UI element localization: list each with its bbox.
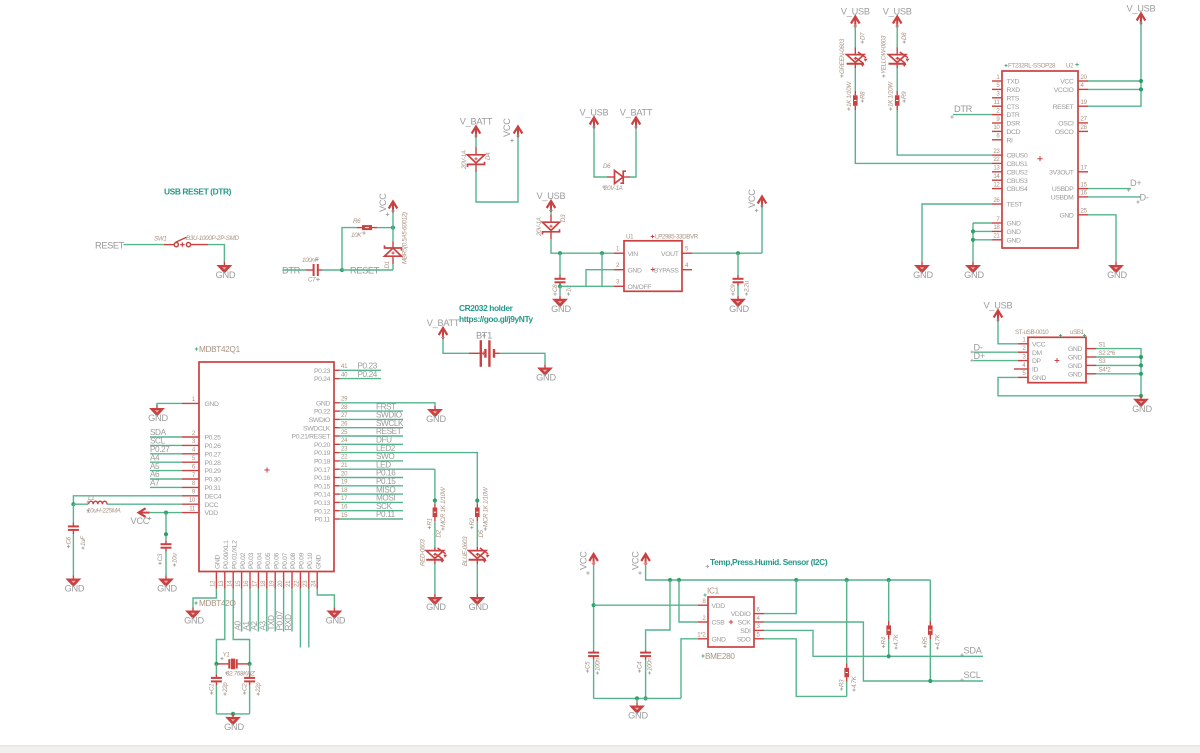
svg-text:11: 11 xyxy=(994,99,1001,106)
svg-text:P0.23: P0.23 xyxy=(314,368,331,375)
svg-text:P0.16: P0.16 xyxy=(314,475,331,482)
pin 1 TXD xyxy=(992,80,1002,82)
svg-text:P0.00/XL1: P0.00/XL1 xyxy=(223,540,230,569)
wire C8 to ground xyxy=(559,286,561,296)
svg-text:GND: GND xyxy=(315,555,322,569)
svg-text:GND: GND xyxy=(536,373,556,383)
svg-text:20V-1A: 20V-1A xyxy=(536,217,543,237)
svg-text:Temp,Press.Humid. Sensor (I2C): Temp,Press.Humid. Sensor (I2C) xyxy=(710,557,828,567)
svg-text:CSB: CSB xyxy=(712,620,726,627)
wire gnd rail xyxy=(594,697,681,699)
wire net P0.24 xyxy=(340,378,382,380)
svg-text:10K: 10K xyxy=(351,232,362,239)
svg-text:13: 13 xyxy=(218,580,225,587)
svg-text:RESET: RESET xyxy=(95,241,125,251)
svg-text:P0.18: P0.18 xyxy=(314,459,331,466)
svg-text:1K 1/10W: 1K 1/10W xyxy=(888,81,895,107)
wire GND pin to ground symbol xyxy=(340,403,436,406)
wire CBUS1 from green LED xyxy=(855,110,992,163)
svg-text:R1: R1 xyxy=(426,518,433,525)
wire to VCC arrow xyxy=(761,208,763,254)
svg-text:GND: GND xyxy=(1068,363,1082,370)
resistor R3 4.7K xyxy=(844,580,849,696)
junction C8 bottom xyxy=(558,284,562,288)
capacitor C7 100nF xyxy=(306,264,322,276)
pin S2 2*6 GND xyxy=(1086,356,1096,358)
wire TEST to ground xyxy=(922,204,992,262)
pin 15 P0.02 xyxy=(241,572,243,589)
junction VCC node xyxy=(391,226,395,230)
supply V_BATT xyxy=(620,108,653,130)
svg-text:USBDP: USBDP xyxy=(1052,186,1074,193)
svg-text:MDBT42Q: MDBT42Q xyxy=(199,599,236,608)
wire P0.09 xyxy=(299,589,301,648)
wire GND5 route xyxy=(998,377,1141,395)
wire net A0 xyxy=(241,589,243,632)
pin 2 DM xyxy=(1018,351,1028,353)
pin 4 BYPASS xyxy=(682,269,692,271)
ground xyxy=(913,262,933,280)
svg-text:P0.17: P0.17 xyxy=(314,467,331,474)
ground xyxy=(184,608,204,626)
svg-text:S1: S1 xyxy=(1099,341,1107,348)
svg-text:22: 22 xyxy=(993,156,1000,163)
svg-text:14: 14 xyxy=(226,580,233,587)
resistor R8 xyxy=(853,91,858,110)
wire C1 to gnd rail xyxy=(215,685,217,714)
wire V_USB to LED D8 xyxy=(896,28,898,48)
pin 3 ON/OFF xyxy=(614,285,624,287)
svg-text:VDDIO: VDDIO xyxy=(731,611,751,618)
svg-text:BME280: BME280 xyxy=(705,652,735,661)
wire C4 to rail xyxy=(645,660,647,699)
svg-text:OSCI: OSCI xyxy=(1058,121,1074,128)
svg-text:GND: GND xyxy=(1107,270,1127,280)
svg-text:TXD: TXD xyxy=(1007,79,1020,86)
pin 1 VCC xyxy=(1018,343,1028,345)
svg-text:P0.11: P0.11 xyxy=(314,517,330,524)
wire C2 to gnd rail xyxy=(249,685,251,714)
svg-text:21: 21 xyxy=(993,233,1000,240)
svg-text:ID: ID xyxy=(1032,367,1039,374)
svg-text:V_USB: V_USB xyxy=(841,7,870,17)
svg-text:U2: U2 xyxy=(1066,63,1074,70)
wire net SCK xyxy=(340,510,404,512)
svg-text:VCC: VCC xyxy=(378,193,388,212)
wire S4 xyxy=(1096,373,1141,375)
ic U2 FT232RL-SSOP28 box xyxy=(1002,71,1078,248)
wire net MISO xyxy=(340,493,404,495)
wire V_BATT to BT1 xyxy=(443,339,469,353)
pin 16 P0.12 xyxy=(334,510,340,512)
svg-text:GND: GND xyxy=(712,636,726,643)
wire net P0.15 xyxy=(340,485,404,487)
svg-text:21: 21 xyxy=(341,462,348,469)
pin 9 DSR xyxy=(992,122,1002,124)
wire LED to ground xyxy=(434,564,436,594)
svg-text:V_USB: V_USB xyxy=(580,108,609,118)
svg-text:25: 25 xyxy=(1081,208,1088,215)
svg-text:IC1: IC1 xyxy=(707,587,720,596)
svg-text:GND: GND xyxy=(913,270,933,280)
svg-text:P0.28: P0.28 xyxy=(205,460,222,467)
junction C4 rail xyxy=(644,696,648,700)
wire net P0.27 xyxy=(150,453,182,455)
diode D1 schottky xyxy=(385,242,402,265)
wire C6 to ground xyxy=(72,534,74,576)
wire net LED2 xyxy=(340,452,479,454)
wire crystal gnd rail xyxy=(216,713,249,715)
pin 24 GND xyxy=(316,572,318,589)
supply VCC xyxy=(514,127,523,139)
scrollbar track xyxy=(0,746,1200,753)
wire XL1 to crystal xyxy=(216,589,224,664)
svg-text:P0.22: P0.22 xyxy=(314,409,331,416)
ground xyxy=(468,594,488,612)
wire V_USB down to RESET row xyxy=(1088,25,1141,107)
wire net P0.11 xyxy=(340,518,404,520)
junction GND18 xyxy=(971,229,975,233)
wire P0.010 xyxy=(308,589,310,648)
svg-text:C7: C7 xyxy=(308,277,316,284)
svg-text:GND: GND xyxy=(215,555,222,569)
svg-text:GND: GND xyxy=(426,414,446,424)
pin 21 GND xyxy=(992,239,1002,241)
pin 6 RI xyxy=(992,139,1002,141)
svg-text:BYPASS: BYPASS xyxy=(654,267,679,274)
svg-text:GND: GND xyxy=(316,400,330,407)
svg-text:GND: GND xyxy=(224,722,244,732)
wire CBUS0 from yellow LED xyxy=(897,110,992,155)
junction gnd rail xyxy=(231,712,235,716)
svg-text:P0.07: P0.07 xyxy=(282,552,289,569)
svg-text:20V-1A: 20V-1A xyxy=(603,185,623,192)
led D2 RED-0603 xyxy=(426,547,447,564)
junction S3 xyxy=(1139,363,1143,367)
ground xyxy=(148,405,168,423)
svg-text:VCC: VCC xyxy=(1032,341,1046,348)
supply V_USB top right xyxy=(1127,4,1156,26)
svg-text:1*2: 1*2 xyxy=(697,632,706,639)
wire net A1 xyxy=(249,589,251,632)
svg-text:C9: C9 xyxy=(730,284,737,292)
svg-text:SDO: SDO xyxy=(737,636,751,643)
pin 4 ID xyxy=(1014,368,1028,370)
svg-text:VCC: VCC xyxy=(631,551,641,570)
svg-text:P0.14: P0.14 xyxy=(314,492,331,499)
svg-text:12: 12 xyxy=(993,181,1000,188)
svg-text:DP: DP xyxy=(1032,358,1042,365)
junction S4 xyxy=(1139,372,1143,376)
junction CSB branch xyxy=(677,578,681,582)
wire D1 anode to RESET wire xyxy=(392,264,394,270)
svg-text:16: 16 xyxy=(1081,190,1088,197)
pin 1 VIN xyxy=(614,252,624,254)
pin 7 P0.30 xyxy=(182,478,199,480)
wire to C9 xyxy=(737,253,739,275)
wire GND25 to ground xyxy=(1088,215,1116,262)
svg-text:P0.04: P0.04 xyxy=(257,552,264,569)
pin 17 3V3OUT xyxy=(1078,171,1088,173)
svg-text:USB RESET (DTR): USB RESET (DTR) xyxy=(164,187,232,197)
svg-text:P0.10: P0.10 xyxy=(307,552,314,569)
svg-text:P0.11: P0.11 xyxy=(376,510,396,519)
pin 2 P0.25 xyxy=(182,436,199,438)
svg-text:20V-1A: 20V-1A xyxy=(461,150,468,170)
svg-text:19: 19 xyxy=(341,479,348,486)
svg-text:21: 21 xyxy=(285,580,292,587)
pin 28 P0.22 xyxy=(334,410,340,412)
wire R6 to VCC node xyxy=(377,227,393,229)
wire DEC4 to inductor node xyxy=(73,496,182,504)
wire net A3 xyxy=(266,589,268,632)
svg-text:GND: GND xyxy=(1132,404,1152,414)
wire to VCC arrow xyxy=(392,213,394,228)
wire pin24 GND xyxy=(317,589,334,608)
pin 28 OSCO xyxy=(1078,130,1088,132)
svg-text:32.768KHZ: 32.768KHZ xyxy=(226,671,255,678)
svg-text:ON/OFF: ON/OFF xyxy=(628,284,652,291)
junction VDD node xyxy=(592,603,596,607)
svg-text:28: 28 xyxy=(341,404,348,411)
svg-text:D3: D3 xyxy=(560,214,567,222)
svg-text:VCC: VCC xyxy=(747,189,757,208)
svg-text:D5: D5 xyxy=(478,529,485,537)
led D8 YELLOW-0603 xyxy=(889,48,910,69)
wire net A4 xyxy=(150,461,182,463)
capacitor C3 10u xyxy=(161,541,172,552)
svg-text:15: 15 xyxy=(1081,181,1088,188)
capacitor C8 1uF xyxy=(555,275,566,286)
svg-text:RED-0603: RED-0603 xyxy=(419,539,426,566)
svg-text:DEC4: DEC4 xyxy=(205,493,222,500)
svg-text:P0.02: P0.02 xyxy=(240,552,247,569)
svg-text:27: 27 xyxy=(1081,116,1088,123)
led D5 BLUE-0603 xyxy=(469,547,490,564)
svg-text:18: 18 xyxy=(260,580,267,587)
wire RESET node to D1 xyxy=(342,269,393,271)
svg-text:17: 17 xyxy=(252,580,259,587)
wire D6 to V_BATT xyxy=(630,129,636,178)
pin 9 DEC4 xyxy=(182,495,199,497)
pin 2 DTR xyxy=(992,114,1002,116)
svg-text:SDA: SDA xyxy=(964,645,983,655)
pin 10 DCD xyxy=(992,130,1002,132)
capacitor C5 100n xyxy=(588,650,599,659)
supply V_USB xyxy=(841,7,870,29)
svg-text:23: 23 xyxy=(341,445,348,452)
junction S2 xyxy=(1139,355,1143,359)
svg-text:VDD: VDD xyxy=(712,603,726,610)
svg-text:VIN: VIN xyxy=(628,251,639,258)
svg-text:GND: GND xyxy=(628,267,642,274)
wire resistor to LED xyxy=(476,521,478,547)
wire VDDIO to bus xyxy=(764,580,796,614)
svg-text:24: 24 xyxy=(341,437,348,444)
pin 5 P0.28 xyxy=(182,461,199,463)
junction VCC xyxy=(1139,79,1143,83)
svg-text:C1: C1 xyxy=(209,684,216,691)
svg-text:ST-uSB-0010: ST-uSB-0010 xyxy=(1015,329,1049,336)
svg-text:P0.27: P0.27 xyxy=(205,451,222,458)
pin 23 P0.19 xyxy=(334,452,340,454)
pin 19 P0.15 xyxy=(334,485,340,487)
svg-text:MBR5(0.5A5-60012): MBR5(0.5A5-60012) xyxy=(402,212,409,264)
junction ONOFF column xyxy=(600,251,604,255)
svg-text:22p: 22p xyxy=(255,682,262,693)
wire net DFU xyxy=(340,443,404,445)
wire shield S1-S4 bus xyxy=(1096,349,1141,396)
wire SDO route to R3 xyxy=(764,639,847,697)
capacitor C6 1uF xyxy=(68,523,79,535)
svg-text:C2: C2 xyxy=(242,683,249,691)
pin 1 GND xyxy=(182,402,199,404)
junction R3 branch xyxy=(845,578,849,582)
ground xyxy=(536,365,556,383)
wire V_USB to LED D7 xyxy=(854,28,856,48)
svg-text:GND: GND xyxy=(1007,221,1021,228)
svg-text:R5: R5 xyxy=(922,636,929,644)
wire V_USB to D3 xyxy=(550,212,552,215)
wire to C8 xyxy=(559,253,561,275)
svg-text:100n: 100n xyxy=(595,658,602,671)
pin 3 SDI xyxy=(754,629,764,631)
pin 25 GND xyxy=(1078,214,1088,216)
svg-text:P0.24: P0.24 xyxy=(358,370,378,379)
wire net P0.16 xyxy=(340,477,404,479)
svg-text:GND: GND xyxy=(426,602,446,612)
pin 23 CBUS0 xyxy=(992,154,1002,156)
svg-text:P0.05: P0.05 xyxy=(265,552,272,569)
svg-text:DTR: DTR xyxy=(954,104,973,114)
wire net FRST xyxy=(340,410,404,412)
pin 24 P0.20 xyxy=(334,443,340,445)
capacitor C4 100n xyxy=(640,650,651,659)
pin 22 P0.18 xyxy=(334,460,340,462)
pin 13 CBUS2 xyxy=(992,171,1002,173)
junction R5 SCL xyxy=(928,679,932,683)
pin 7 GND xyxy=(992,222,1002,224)
pin 4 SCK xyxy=(754,621,764,623)
wire VCC row xyxy=(1088,80,1141,82)
svg-text:USBDM: USBDM xyxy=(1051,195,1074,202)
svg-text:CBUS2: CBUS2 xyxy=(1007,169,1028,176)
junction R4 SDA xyxy=(887,654,891,658)
svg-text:P0.29: P0.29 xyxy=(205,468,222,475)
svg-text:R9: R9 xyxy=(901,91,908,99)
junction VCCIO xyxy=(1139,87,1143,91)
svg-text:16: 16 xyxy=(243,580,250,587)
wire D3 to VIN xyxy=(551,239,614,253)
wire node to C6 xyxy=(72,504,74,522)
svg-text:RI: RI xyxy=(1007,137,1014,144)
pin 17 P0.04 xyxy=(257,572,259,589)
svg-text:20: 20 xyxy=(277,580,284,587)
pin 8 P0.31 xyxy=(182,486,199,488)
svg-text:DCC: DCC xyxy=(205,502,219,509)
junction rail gnd xyxy=(635,696,639,700)
wire VDD row xyxy=(594,604,698,606)
pin 19 RESET xyxy=(1078,105,1088,107)
svg-text:29: 29 xyxy=(341,396,348,403)
svg-text:P0.09: P0.09 xyxy=(299,552,306,569)
wire BT1 to GND xyxy=(500,353,546,364)
svg-text:11: 11 xyxy=(189,505,196,512)
wire LED to ground xyxy=(476,564,478,594)
wire GND pin7 xyxy=(973,222,992,224)
junction C8 top xyxy=(558,251,562,255)
diode D3 schottky xyxy=(543,215,560,240)
pin 1*2 GND xyxy=(698,638,708,640)
junction C9 top xyxy=(736,251,740,255)
svg-text:10: 10 xyxy=(993,124,1000,131)
svg-text:D+: D+ xyxy=(1130,178,1142,188)
pin 3 P0.26 xyxy=(182,444,199,446)
svg-text:P0.03: P0.03 xyxy=(248,552,255,569)
svg-text:15: 15 xyxy=(235,580,242,587)
pin 12 GND xyxy=(215,572,217,589)
svg-text:41: 41 xyxy=(341,363,348,370)
ground xyxy=(1132,396,1152,414)
wire GND pin route xyxy=(681,639,698,699)
wire net RXD xyxy=(291,589,293,632)
pin 5 VOUT xyxy=(682,252,692,254)
wire net SWDIO xyxy=(340,418,404,420)
origin cross xyxy=(1037,156,1042,161)
pin 22 CBUS1 xyxy=(992,162,1002,164)
svg-text:GND: GND xyxy=(1068,355,1082,362)
svg-text:DTR: DTR xyxy=(1007,112,1020,119)
svg-text:SDI: SDI xyxy=(740,628,751,635)
wire C5 to rail xyxy=(593,660,595,699)
svg-text:C3: C3 xyxy=(157,553,164,561)
svg-text:P0.01/XL2: P0.01/XL2 xyxy=(231,540,238,569)
pin 21 P0.08 xyxy=(291,572,293,589)
svg-text:S2 2*6: S2 2*6 xyxy=(1099,350,1116,357)
svg-text:P0.26: P0.26 xyxy=(205,443,222,450)
ic IC1 BME280 box xyxy=(708,597,754,647)
wire USBDP to D+ xyxy=(1088,188,1131,190)
svg-text:P0.06: P0.06 xyxy=(273,552,280,569)
wire GND pin18 xyxy=(973,230,992,232)
capacitor C2 22p xyxy=(244,675,255,686)
svg-text:V_USB: V_USB xyxy=(984,301,1013,311)
junction R4 branch xyxy=(887,578,891,582)
wire net RESET xyxy=(340,435,404,437)
svg-text:P0.12: P0.12 xyxy=(314,508,331,515)
svg-text:17: 17 xyxy=(341,495,348,502)
svg-text:S4*2: S4*2 xyxy=(1099,367,1112,374)
wire D4 to VCC arrow xyxy=(476,138,518,203)
svg-text:CBUS3: CBUS3 xyxy=(1007,178,1028,185)
svg-text:SW1: SW1 xyxy=(154,236,167,243)
svg-text:3V3OUT: 3V3OUT xyxy=(1049,169,1074,176)
svg-text:C8: C8 xyxy=(552,284,559,292)
supply V_USB xyxy=(580,108,609,130)
wire net A7 xyxy=(150,486,182,488)
svg-text:SWDIO: SWDIO xyxy=(309,417,330,424)
pin 5 RXD xyxy=(992,88,1002,90)
pin 26 SWDCLK xyxy=(334,427,340,429)
pin 16 USBDM xyxy=(1078,196,1088,198)
wire V_BATT to D4 xyxy=(475,138,477,148)
pin S3 GND xyxy=(1086,364,1096,366)
junction GND21 xyxy=(971,238,975,242)
svg-text:26: 26 xyxy=(993,197,1000,204)
pin 19 P0.06 xyxy=(274,572,276,589)
svg-text:D-: D- xyxy=(1140,193,1149,203)
supply VCC xyxy=(589,554,598,566)
